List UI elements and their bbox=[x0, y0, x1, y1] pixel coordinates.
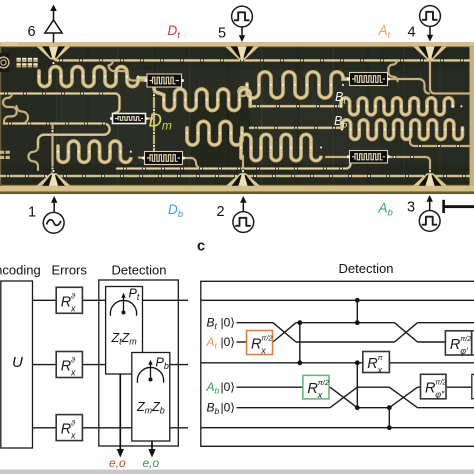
feedline highlights bbox=[54, 57, 471, 61]
crossing T3 bbox=[389, 387, 417, 408]
marker dashes bottom-left bbox=[0, 151, 10, 159]
chip left border bbox=[0, 47, 1, 187]
wire c5 bbox=[201, 362, 474, 364]
gate Rx pi/2 orange bbox=[247, 331, 273, 355]
svg-text:1: 1 bbox=[28, 205, 36, 221]
pad port 3 bbox=[413, 173, 447, 186]
error gate Rx1 bbox=[56, 287, 82, 313]
svg-text:Encoding: Encoding bbox=[0, 263, 41, 278]
wire At mid bbox=[273, 341, 395, 343]
detection outer box c bbox=[201, 281, 474, 446]
svg-text:x: x bbox=[317, 390, 323, 400]
parity box ZtZm bbox=[106, 287, 143, 375]
feedline top bbox=[54, 57, 471, 61]
resonator B_b right meander highlight bbox=[342, 120, 462, 140]
svg-text:π/2: π/2 bbox=[460, 334, 472, 343]
line y123 U-turn bbox=[4, 124, 110, 148]
svg-text:φ′: φ′ bbox=[460, 346, 468, 356]
memory resonator vertical D_m bbox=[153, 86, 155, 151]
chip top ground edge bbox=[0, 42, 474, 47]
svg-text:π/2: π/2 bbox=[261, 334, 273, 343]
vertical Vd bbox=[388, 408, 390, 428]
wire Bt stub bbox=[237, 322, 274, 324]
wire b2 bbox=[33, 364, 189, 366]
svg-text:5: 5 bbox=[218, 26, 226, 42]
S-curl left mid bbox=[3, 94, 17, 124]
resonator B_t right meander highlight bbox=[341, 98, 453, 115]
wire c8 bbox=[201, 427, 474, 429]
CB4 link to M5 bbox=[326, 156, 349, 158]
port 6 amplifier symbol bbox=[45, 9, 62, 43]
encoder box U bbox=[1, 281, 33, 448]
port 4 arrow bbox=[429, 27, 431, 36]
chip substrate panel a bbox=[0, 42, 474, 194]
qubit device CB3 bbox=[145, 152, 183, 165]
svg-text:x: x bbox=[377, 365, 383, 375]
error gate Rx2 bbox=[56, 352, 82, 378]
resonator bottom-left meander base bbox=[58, 141, 131, 162]
gate Rx pi bbox=[363, 352, 390, 373]
control dots bbox=[297, 298, 391, 430]
chip right border bbox=[470, 47, 474, 187]
B_t straight wire bbox=[252, 105, 341, 108]
vertical Va bbox=[299, 323, 301, 363]
port 2 launcher line bbox=[242, 156, 244, 175]
drive line aux bbox=[117, 164, 351, 169]
CB2 link bbox=[147, 117, 155, 119]
svg-text:π/2: π/2 bbox=[435, 378, 447, 387]
wire At stub bbox=[237, 341, 247, 343]
svg-text:2: 2 bbox=[217, 204, 225, 220]
output arrow b bbox=[151, 441, 153, 450]
pad port 5 bbox=[225, 47, 259, 60]
port 3 pulse source bbox=[419, 211, 440, 232]
resonator D_t meander highlight bbox=[39, 67, 146, 87]
feedline bottom bbox=[0, 175, 470, 178]
wire Ab right bbox=[418, 386, 472, 388]
vertical Vb bbox=[356, 300, 358, 322]
svg-text:x: x bbox=[70, 303, 76, 313]
wire At right bbox=[418, 341, 474, 343]
svg-text:|0⟩: |0⟩ bbox=[221, 335, 235, 349]
port 3 arrow bbox=[429, 201, 431, 210]
svg-text:Detection: Detection bbox=[339, 261, 394, 276]
svg-text:x: x bbox=[70, 368, 76, 378]
resonator D_t meander base bbox=[39, 67, 146, 87]
extra left wiring bbox=[17, 106, 29, 124]
wire Bb stub bbox=[237, 407, 331, 409]
svg-text:|0⟩: |0⟩ bbox=[221, 401, 235, 415]
feedlines base stroke bbox=[0, 57, 470, 177]
svg-text:6: 6 bbox=[28, 24, 36, 40]
resonator B_t right meander base bbox=[341, 98, 453, 115]
chip bottom ground edge bbox=[0, 186, 474, 192]
pad port 4 bbox=[413, 47, 447, 60]
wire Ab mid bbox=[329, 386, 389, 388]
resonator B_t S-link base bbox=[154, 85, 164, 95]
crossing T2 bbox=[330, 387, 357, 408]
port 2 pulse source bbox=[233, 212, 254, 233]
gate Rx pi/2 green bbox=[303, 375, 329, 399]
svg-text:x: x bbox=[70, 431, 76, 441]
meter P_t bbox=[110, 297, 136, 316]
wire c1 bbox=[201, 299, 474, 301]
clipped gate top right bbox=[472, 331, 474, 355]
right edge line y146 bbox=[410, 139, 470, 146]
svg-text:4: 4 bbox=[408, 25, 416, 41]
port 5 pulse source bbox=[232, 6, 253, 27]
svg-text:V6B2: V6B2 bbox=[2, 42, 19, 48]
parity box ZmZb bbox=[132, 353, 170, 442]
resonator B_t left meander base bbox=[164, 89, 250, 111]
airbridge leg dots bbox=[38, 76, 464, 153]
chip logo bbox=[0, 53, 10, 72]
crossing T1 bbox=[273, 323, 296, 342]
svg-text:U: U bbox=[12, 354, 23, 371]
vertical Vc bbox=[356, 363, 358, 408]
svg-text:φ″: φ″ bbox=[435, 390, 445, 400]
svg-text:Detection: Detection bbox=[112, 263, 167, 278]
scale bar bbox=[442, 200, 445, 213]
meter P_b bbox=[137, 364, 163, 383]
port 1 sine source bbox=[43, 212, 64, 233]
wire Bt mid bbox=[296, 322, 395, 324]
svg-text:Errors: Errors bbox=[52, 263, 88, 278]
resonator D_b meander base bbox=[241, 134, 321, 160]
error gate Rx3 bbox=[56, 415, 82, 441]
gate Rphi2 pi/2 bbox=[421, 374, 447, 399]
marker dashes top-left bbox=[17, 58, 38, 68]
wire Ab stub bbox=[237, 386, 303, 388]
qubit device CB2 white framed bbox=[113, 114, 146, 124]
wire Bt right bbox=[418, 322, 474, 324]
resonator meanders bbox=[39, 67, 462, 163]
port 4 drive line down to A_t feed bbox=[430, 61, 470, 94]
resonator B_t S-link highlight bbox=[154, 85, 164, 95]
resonator A_t meander highlight bbox=[247, 72, 349, 98]
svg-text:|0⟩: |0⟩ bbox=[221, 380, 235, 394]
wire Bb mid bbox=[357, 407, 389, 409]
M4 to CB3 link bbox=[139, 156, 144, 159]
svg-text:x: x bbox=[260, 346, 266, 356]
port 5 arrow bbox=[241, 28, 243, 37]
resonator D_b meander highlight bbox=[241, 134, 321, 160]
svg-text:π/2: π/2 bbox=[318, 378, 330, 387]
pad port 2 bbox=[226, 173, 260, 186]
S-curl left bottom bbox=[28, 147, 38, 170]
output arrow t bbox=[119, 374, 121, 450]
qubit device CB4 bbox=[350, 151, 388, 164]
wire Bb right bbox=[418, 407, 474, 409]
pad port 6 bbox=[37, 47, 71, 60]
qubit device CB5 bbox=[350, 73, 388, 86]
detection outer box b bbox=[99, 280, 179, 446]
wire b1 bbox=[33, 299, 189, 301]
resonator B_b left meander highlight bbox=[187, 121, 242, 145]
FL1 coupler S at 397 bbox=[388, 60, 397, 81]
svg-text:e,o: e,o bbox=[143, 456, 160, 470]
resonator B_b right meander base bbox=[342, 120, 462, 140]
clipped gate bottom right bbox=[472, 374, 474, 398]
svg-text:|0⟩: |0⟩ bbox=[221, 316, 235, 330]
M6 left loop bbox=[238, 87, 247, 96]
port 2 arrow bbox=[242, 202, 244, 212]
svg-text:3: 3 bbox=[407, 200, 415, 216]
svg-text:e,o: e,o bbox=[109, 456, 126, 470]
bottom grey bar bbox=[0, 470, 474, 474]
resonator A_t meander base bbox=[247, 72, 349, 98]
B_b straight wire bbox=[250, 127, 342, 130]
airbridge ringed dots bbox=[5, 59, 466, 178]
port 3 launcher line bbox=[389, 157, 430, 175]
resonator bottom-left meander highlight bbox=[58, 141, 131, 162]
port 4 pulse source bbox=[420, 6, 441, 27]
resonator B_t left meander highlight bbox=[164, 89, 250, 111]
wire b3 bbox=[33, 427, 189, 429]
CB3 pigtail to aux bbox=[184, 158, 202, 169]
CB5 output line bbox=[388, 79, 429, 94]
svg-text:c: c bbox=[197, 239, 205, 255]
pad port 1 bbox=[37, 173, 71, 186]
port 1 arrow bbox=[53, 202, 55, 212]
feedline D left bbox=[0, 94, 120, 114]
gate Rphi1 pi/2 bbox=[445, 331, 471, 355]
pigtail coupler CB1 bbox=[109, 60, 147, 80]
crossing T4 bbox=[395, 323, 418, 342]
tile seams bbox=[57, 47, 440, 186]
resonator B_b left meander base bbox=[187, 121, 242, 145]
qubit device CB1 bbox=[147, 74, 182, 87]
port 1 launcher line bbox=[51, 124, 53, 176]
